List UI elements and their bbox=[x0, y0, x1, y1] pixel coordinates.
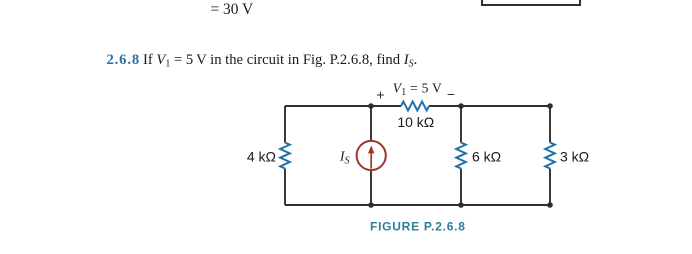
svg-text:+: + bbox=[376, 86, 384, 102]
svg-text:6 kΩ: 6 kΩ bbox=[472, 149, 501, 165]
svg-text:10 kΩ: 10 kΩ bbox=[397, 114, 434, 130]
svg-text:IS: IS bbox=[339, 148, 350, 166]
svg-text:FIGURE P.2.6.8: FIGURE P.2.6.8 bbox=[370, 220, 466, 234]
svg-text:V1 = 5 V: V1 = 5 V bbox=[393, 80, 442, 98]
svg-text:−: − bbox=[447, 86, 455, 102]
svg-text:3 kΩ: 3 kΩ bbox=[560, 149, 589, 165]
svg-text:4 kΩ: 4 kΩ bbox=[247, 149, 276, 165]
